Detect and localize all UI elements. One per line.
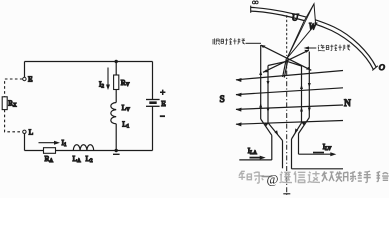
battery E plate bottom long [146, 105, 160, 107]
node junction bottom middle [115, 149, 118, 152]
wire middle branch upper [115, 62, 117, 76]
current arrowhead inner left lower [267, 108, 270, 113]
arrow current ILV [313, 152, 324, 154]
wire middle branch between R and L [115, 90, 117, 103]
wire middle branch lower [115, 124, 117, 151]
coil bottom slant inner right [292, 123, 302, 139]
watermark glyph 知 [239, 171, 252, 180]
field line 3 [236, 105, 343, 109]
inductor LA L2 coil [73, 145, 93, 151]
wire bottom right upper horizontal [299, 153, 333, 155]
coil lead left outer [271, 135, 273, 160]
current arrowhead on outer right side [308, 83, 311, 88]
svg-text:N: N [344, 99, 351, 109]
coil lead right inner [291, 139, 293, 169]
scale arc right end tick [372, 66, 378, 71]
dashed pivot axis upper [286, 15, 288, 56]
svg-text:L1: L1 [122, 120, 130, 130]
needle tail below pivot [283, 59, 289, 78]
current arrowhead bottom right slant [302, 121, 306, 125]
coil bottom slant outer right [299, 118, 310, 134]
coil inner top right edge [287, 61, 302, 66]
wire right side upper [152, 62, 154, 100]
needle blade [287, 4, 316, 59]
svg-text:LA: LA [73, 154, 82, 164]
needle crease [287, 4, 314, 58]
watermark glyph 手 [364, 171, 371, 182]
arrowhead on D2 top [304, 50, 309, 53]
node E terminal circle [23, 77, 26, 80]
wire dashed from Rx to L [5, 110, 23, 132]
svg-text:O: O [379, 62, 385, 72]
current arrowhead inner right lower [300, 107, 303, 112]
label clockwise text 顺时针转 (drawn glyphs) [213, 38, 245, 44]
svg-text:E: E [28, 75, 33, 84]
coil top edge D1 [261, 45, 311, 70]
field line 4 [236, 121, 343, 125]
svg-text:L: L [29, 128, 34, 137]
battery E plate short thick [149, 101, 156, 104]
wire bottom left lead horizontal [239, 159, 271, 161]
current arrowhead outer left lower [259, 103, 262, 108]
spring anchor tick bottom center [283, 193, 290, 195]
watermark glyph 华 [336, 171, 348, 181]
coil drum outer right side [308, 52, 310, 118]
svg-text:W: W [309, 22, 318, 32]
watermark glyph 乎 [254, 172, 264, 183]
svg-text:ILA: ILA [248, 147, 257, 156]
label infinity [252, 1, 258, 4]
current arrowhead on outer left side [259, 71, 262, 76]
svg-text:I1: I1 [62, 138, 68, 148]
svg-text:RV: RV [121, 78, 130, 88]
wire right side lower [152, 106, 154, 150]
scale arc left end tick [250, 6, 252, 13]
svg-text:LV: LV [122, 103, 131, 113]
svg-text:U: U [292, 13, 299, 23]
leader line for counterclockwise label with arrow [307, 47, 317, 49]
svg-text:E: E [161, 99, 166, 108]
svg-text:S: S [220, 95, 225, 105]
current arrowhead inner right slant [295, 128, 299, 133]
wire dashed from E to Rx [5, 79, 23, 97]
coil lead left inner [282, 141, 284, 169]
current arrowhead inner left slant [275, 130, 279, 135]
coil drum outer left side [260, 45, 262, 119]
current arrowhead bottom left slant [264, 122, 268, 126]
wire E terminal drop [24, 62, 26, 78]
wire L drop [24, 134, 26, 151]
current arrowhead outer right lower [308, 108, 311, 113]
dashed center axis lower [286, 60, 288, 195]
watermark glyph 通 [280, 172, 292, 183]
coil lead right outer [298, 134, 300, 155]
coil bottom slant inner left [268, 123, 283, 141]
field line 1 [236, 71, 343, 80]
scale arc band lower curve [251, 11, 373, 69]
node junction top middle [115, 60, 118, 63]
svg-text:I2: I2 [99, 80, 105, 90]
watermark 知乎 @通信达秋华韵手绘 (drawn glyphs) [239, 171, 389, 186]
svg-text:RX: RX [8, 99, 17, 108]
arrowhead on D1 top [261, 45, 266, 48]
watermark glyph 达 [308, 171, 320, 182]
watermark glyph 绘 [377, 172, 389, 182]
svg-text:RA: RA [45, 154, 54, 164]
resistor RA [44, 148, 56, 154]
watermark at sign [262, 176, 273, 178]
svg-text:@: @ [267, 172, 279, 187]
battery E plate top long [146, 99, 160, 101]
ground tick below junction [113, 153, 120, 155]
arrow current I2 [107, 68, 109, 87]
node L terminal circle [23, 130, 26, 133]
resistor Rx [2, 97, 7, 110]
scale arc band upper curve [251, 7, 376, 67]
arrow current ILA [250, 157, 262, 159]
coil inner right side [301, 66, 303, 123]
svg-text:L2: L2 [86, 154, 94, 164]
resistor RV [114, 75, 119, 90]
watermark glyph 韵 [350, 172, 362, 182]
watermark glyph 秋 [322, 171, 334, 181]
coil bottom slant outer left [261, 119, 272, 135]
arrowhead on D1 bottom end [306, 67, 311, 70]
label battery minus [160, 115, 165, 117]
arrowhead on D2 bottom end [263, 69, 268, 72]
current arrowhead on inner left side [267, 81, 270, 86]
wire top horizontal [25, 61, 153, 63]
coil top edge D2 [263, 50, 309, 72]
label battery plus [160, 90, 165, 95]
inductor LV L1 coil [111, 103, 116, 124]
field line 2 [236, 88, 343, 95]
label counterclockwise text 逆时针转 (drawn glyphs) [318, 45, 350, 51]
coil inner left side [267, 66, 269, 123]
watermark glyph 信 [294, 171, 305, 182]
current arrowhead on inner right side [300, 85, 303, 90]
leader line for clockwise label [246, 42, 262, 44]
arrow current I1 [39, 142, 56, 144]
wire bottom horizontal [25, 150, 153, 152]
svg-text:ILV: ILV [323, 143, 332, 152]
coil inner top left edge [268, 61, 287, 65]
wire bottom right lower horizontal [292, 168, 344, 170]
